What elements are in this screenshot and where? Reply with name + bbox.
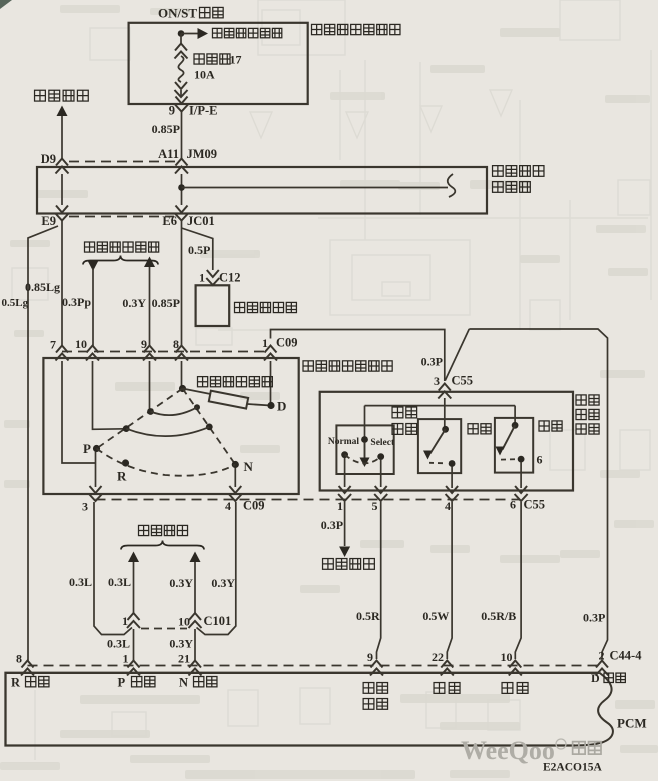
svg-text:5: 5 (372, 499, 378, 513)
downshift switch rect (495, 418, 533, 473)
svg-text:1: 1 (123, 652, 129, 666)
upshift travel (dashed) (429, 462, 447, 465)
wire branch inside engine box (182, 187, 449, 189)
front passenger junction box (129, 23, 308, 104)
bus drop to select (364, 406, 366, 437)
svg-text:22: 22 (432, 650, 444, 664)
downshift travel (dashed) (501, 458, 518, 460)
label 选择 bottom (363, 683, 387, 694)
label 车速传感器 (235, 302, 297, 312)
dashed net C09/C55 bottom row (96, 499, 521, 501)
connector C44-4 pin21 (189, 661, 202, 676)
arrow to gauges (P) (128, 552, 139, 563)
svg-text:Select: Select (370, 438, 395, 448)
transmission range switch box (43, 358, 298, 494)
svg-text:1: 1 (122, 614, 128, 628)
label 参考电源分布 (212, 28, 281, 37)
connector C44-4 pin2 (596, 661, 609, 676)
dashed net PCM row (28, 665, 599, 667)
svg-text:0.3P: 0.3P (583, 611, 605, 625)
label 升挡 (upshift) (468, 424, 491, 434)
arrow 参考仪表 (top left) (57, 106, 68, 117)
wire 0.3P to gauges (344, 502, 346, 546)
downshift common contact (512, 422, 519, 429)
svg-text:10A: 10A (194, 68, 215, 82)
svg-text:0.5R: 0.5R (356, 609, 380, 623)
svg-text:0.3P: 0.3P (421, 355, 443, 369)
held-contact resistor element (209, 391, 248, 409)
wire P to pin3 (95, 452, 97, 488)
label 参考启动系统 (85, 242, 159, 252)
connector 9 I/P-E (175, 97, 188, 112)
wire to power distribution ref (181, 33, 199, 35)
connector C09 pin4 (229, 486, 242, 501)
svg-text:N: N (244, 459, 254, 474)
svg-text:6: 6 (510, 498, 516, 512)
svg-text:0.85P: 0.85P (152, 296, 180, 310)
svg-text:1: 1 (337, 499, 343, 513)
wire pin9 inside (149, 361, 151, 411)
connector C09 pin1 (264, 346, 277, 361)
svg-text:0.5P: 0.5P (188, 243, 210, 257)
svg-text:0.3Y: 0.3Y (169, 637, 193, 651)
label 保险丝 (fuse) (194, 54, 230, 64)
wire P gauge (133, 562, 135, 613)
arrow to gauges (N) (190, 552, 201, 563)
connector C55 pin3 (438, 384, 451, 399)
connector C101 pin1 (127, 613, 140, 628)
wiper track pivot to P (dashed) (97, 389, 183, 449)
wire D9-E9 inside box (61, 174, 63, 205)
watermark 维库 (573, 742, 601, 755)
wire to gauges ref (61, 116, 63, 159)
wire node to fuse (180, 34, 182, 45)
svg-text:E2ACO15A: E2ACO15A (543, 762, 602, 774)
svg-text:10: 10 (178, 615, 190, 629)
upshift output contact (449, 460, 456, 467)
connector C09 pin9 (143, 346, 156, 361)
svg-text:0.3Y: 0.3Y (122, 296, 146, 310)
svg-text:E9: E9 (41, 214, 56, 228)
wire 0.5P branch (182, 228, 213, 270)
svg-text:R: R (11, 676, 21, 690)
label 前排乘客接线盒 (312, 24, 400, 34)
arrow 0.3Y to start system (144, 257, 155, 268)
dashed net C101 (141, 628, 187, 630)
svg-text:C09: C09 (276, 336, 298, 350)
wire diagonal into C55 (445, 329, 469, 381)
svg-text:C09: C09 (243, 499, 265, 513)
connector C44-4 pin9 (370, 661, 383, 676)
svg-text:P: P (118, 676, 126, 690)
svg-text:WeeQoo: WeeQoo (461, 736, 555, 765)
wire 0.5R (377, 502, 381, 659)
contact arc pin10 (126, 427, 209, 436)
PCM torn edge squiggle (575, 673, 613, 746)
svg-text:0.3L: 0.3L (107, 637, 130, 651)
connector C44-4 pin8 (21, 661, 34, 676)
connector E6 JC01 (175, 206, 188, 221)
wire 0.85Lg E9 to pin7 (61, 221, 63, 346)
wire pin8 to pivot (181, 361, 183, 386)
svg-text:D: D (277, 399, 286, 414)
vehicle speed sensor (196, 285, 230, 326)
svg-text:A11: A11 (158, 147, 179, 161)
connector C12 pin1 (206, 270, 219, 285)
svg-text:21: 21 (178, 652, 190, 666)
contact arc pin9 (151, 407, 198, 415)
wire select-normal to pin1 (344, 458, 346, 487)
select switch rect (336, 425, 393, 474)
dashed net D9-A11 (69, 161, 175, 163)
svg-text:7: 7 (50, 338, 56, 352)
wire 0.5W (447, 502, 452, 659)
PCM module box (6, 673, 600, 746)
svg-text:C55: C55 (452, 374, 474, 388)
select wiper travel (dashed) (345, 455, 381, 464)
svg-text:10: 10 (501, 650, 513, 664)
wire 0.3Y (149, 267, 151, 346)
svg-text:1: 1 (199, 271, 205, 285)
svg-text:0.5Lg: 0.5Lg (2, 297, 29, 309)
sport switch bus (365, 405, 516, 407)
svg-text:10: 10 (75, 337, 87, 351)
label D 输入 (604, 673, 625, 682)
label 降挡 bottom (502, 683, 528, 694)
label P 输入 (132, 677, 155, 687)
label 降挡 (downshift) (539, 421, 562, 431)
connector C09 pin8 (175, 346, 188, 361)
svg-text:1: 1 (262, 336, 268, 350)
brace start system ref (83, 256, 158, 265)
contact lower on N track (206, 424, 213, 431)
connector E9 (56, 206, 69, 221)
wire 0.85P E6 to pin8 (181, 221, 183, 346)
label 参考仪表 bottom (323, 559, 375, 570)
wire 0.3Y to PCM pin21 (194, 629, 196, 661)
select normal contact (341, 451, 348, 458)
downshift wiper arrow (496, 447, 505, 456)
fuse 17 upper terminal (175, 44, 188, 59)
svg-text:3: 3 (82, 500, 88, 514)
svg-text:ON/ST: ON/ST (158, 6, 197, 21)
upshift switch rect (418, 419, 461, 473)
svg-text:C55: C55 (524, 498, 546, 512)
label ON/ST 电源 (200, 7, 224, 17)
label 发动机室 (493, 166, 544, 177)
contact upper on N track (194, 404, 200, 410)
select wiper arm (364, 442, 366, 458)
svg-text:0.5R/B: 0.5R/B (481, 609, 516, 623)
wire A11-E6 inside box (181, 174, 183, 205)
svg-text:P: P (83, 441, 91, 456)
dashed net C09 row (62, 351, 270, 353)
wire C55 pin3 into box (444, 398, 446, 429)
connector C55 pin4 (446, 486, 459, 501)
wire pin1 to D contact (270, 361, 272, 403)
contact P (93, 445, 100, 452)
wire 0.5Lg to PCM pin8 (28, 226, 58, 661)
upshift output wire (451, 467, 453, 489)
label 变速器挡位开关 (303, 361, 392, 371)
connector A11 JM09 (175, 159, 188, 174)
wire fuse to I/P-E (180, 90, 182, 96)
contact N (232, 461, 239, 468)
select common contact (361, 436, 368, 443)
wire 0.85P (181, 112, 183, 159)
wire top-right 0.3P run (469, 329, 607, 659)
connector C55 pin6 (515, 486, 528, 501)
svg-text:N: N (179, 676, 188, 690)
wire 0.5R/B (515, 502, 521, 659)
svg-text:0.3L: 0.3L (108, 575, 131, 589)
label N 输入 (194, 677, 217, 687)
svg-text:0.3Pp: 0.3Pp (62, 295, 91, 309)
node ON/ST feed (178, 30, 185, 37)
sport mode switch box (320, 392, 573, 491)
contact on pin9 track (147, 408, 154, 415)
svg-text:C12: C12 (219, 271, 241, 285)
label 运动 (sport) (576, 395, 599, 405)
svg-text:9: 9 (367, 650, 373, 664)
connector C44-4 pin1 (127, 661, 140, 676)
svg-text:6: 6 (537, 453, 543, 467)
connector C44-4 pin22 (441, 661, 454, 676)
upshift wiper arrow (423, 451, 432, 460)
svg-text:Normal: Normal (328, 437, 359, 447)
arrow to power distribution ref (198, 28, 209, 39)
brace gauges ref inner (121, 541, 204, 550)
label 方式 (mode) (576, 409, 599, 419)
label 选择 (select) (392, 407, 417, 418)
connector C55 pin1 (338, 486, 351, 501)
wire N to pin4 (234, 468, 236, 487)
label 参考仪表 top-left (35, 90, 89, 101)
wire break squiggle (448, 174, 456, 197)
svg-text:C101: C101 (204, 614, 232, 628)
wire 0.3L pin3 down (94, 502, 132, 635)
wire pin7 inside (62, 361, 96, 463)
switch pivot (179, 385, 186, 392)
svg-text:0.5W: 0.5W (422, 609, 449, 623)
junction inside engine box (178, 184, 185, 191)
downshift wiper arm (503, 425, 516, 449)
gear arc P-R-N (dashed) (97, 449, 236, 476)
label 接线盒 (493, 182, 531, 193)
wiper track pivot to N (dashed) (183, 389, 236, 465)
label 开关 bottom (363, 699, 387, 710)
connector C09 pin10 (86, 346, 99, 361)
contact D (267, 402, 274, 409)
svg-text:JM09: JM09 (187, 147, 218, 161)
label 开关 (switch) upper (392, 424, 417, 435)
svg-text:R: R (117, 469, 127, 484)
connector C55 pin5 (374, 486, 387, 501)
select select contact (377, 453, 384, 460)
svg-text:3: 3 (434, 374, 440, 388)
contact on pin10 track (123, 425, 130, 432)
held-contact link left (183, 389, 211, 395)
upshift wiper arm (431, 429, 446, 453)
svg-text:0.85P: 0.85P (152, 122, 180, 136)
held-contact link right (248, 404, 269, 405)
svg-text:4: 4 (445, 499, 451, 513)
svg-text:8: 8 (16, 652, 22, 666)
label 参考仪表 inner (139, 525, 188, 535)
label 保持接触的点 (198, 377, 273, 387)
dashed net E9-E6 (69, 216, 174, 218)
upshift common contact (442, 426, 449, 433)
svg-text:4: 4 (225, 499, 231, 513)
wire 0.3Pp (92, 268, 94, 346)
wire 0.3Y pin4 down (197, 502, 236, 635)
svg-text:D: D (591, 671, 600, 685)
wire pin1 C09 riser (271, 330, 445, 382)
connector C44-4 pin10 (509, 661, 522, 676)
connector C101 pin10 (189, 613, 202, 628)
bus drop to downshift (514, 406, 516, 423)
svg-text:0.85Lg: 0.85Lg (25, 280, 60, 294)
label 升挡 bottom (434, 683, 460, 694)
wire N gauge (194, 562, 196, 613)
fuse 17 element (178, 56, 183, 82)
svg-text:0.3Y: 0.3Y (169, 576, 193, 590)
svg-text:0.3Y: 0.3Y (211, 576, 235, 590)
contact R (122, 459, 129, 466)
arrow 0.3P to gauges (339, 547, 350, 558)
svg-text:JC01: JC01 (187, 214, 215, 228)
svg-text:17: 17 (230, 53, 242, 67)
svg-text:9: 9 (169, 104, 175, 118)
svg-text:0.3P: 0.3P (321, 518, 343, 532)
label R 输入 (26, 677, 49, 687)
downshift output wire (520, 462, 522, 488)
svg-text:C44-4: C44-4 (610, 649, 643, 663)
select wiper arrow (360, 458, 370, 468)
connector C09 pin7 (56, 346, 69, 361)
wire pin10 inside (93, 361, 126, 429)
connector D9 (56, 159, 69, 174)
engine room junction box (37, 167, 487, 214)
fuse 17 lower terminal (175, 82, 188, 97)
svg-text:0.3L: 0.3L (69, 575, 92, 589)
svg-text:D9: D9 (41, 152, 56, 166)
wire 0.3L to PCM pin1 (133, 629, 135, 661)
wire select-select to pin5 (380, 460, 382, 487)
downshift output contact (518, 456, 525, 463)
arrow 0.3Pp from start system (88, 261, 99, 272)
connector C09 pin3 (89, 486, 102, 501)
svg-text:I/P-E: I/P-E (189, 104, 217, 118)
label 开关 (switch) (576, 424, 599, 434)
svg-text:PCM: PCM (617, 716, 647, 731)
